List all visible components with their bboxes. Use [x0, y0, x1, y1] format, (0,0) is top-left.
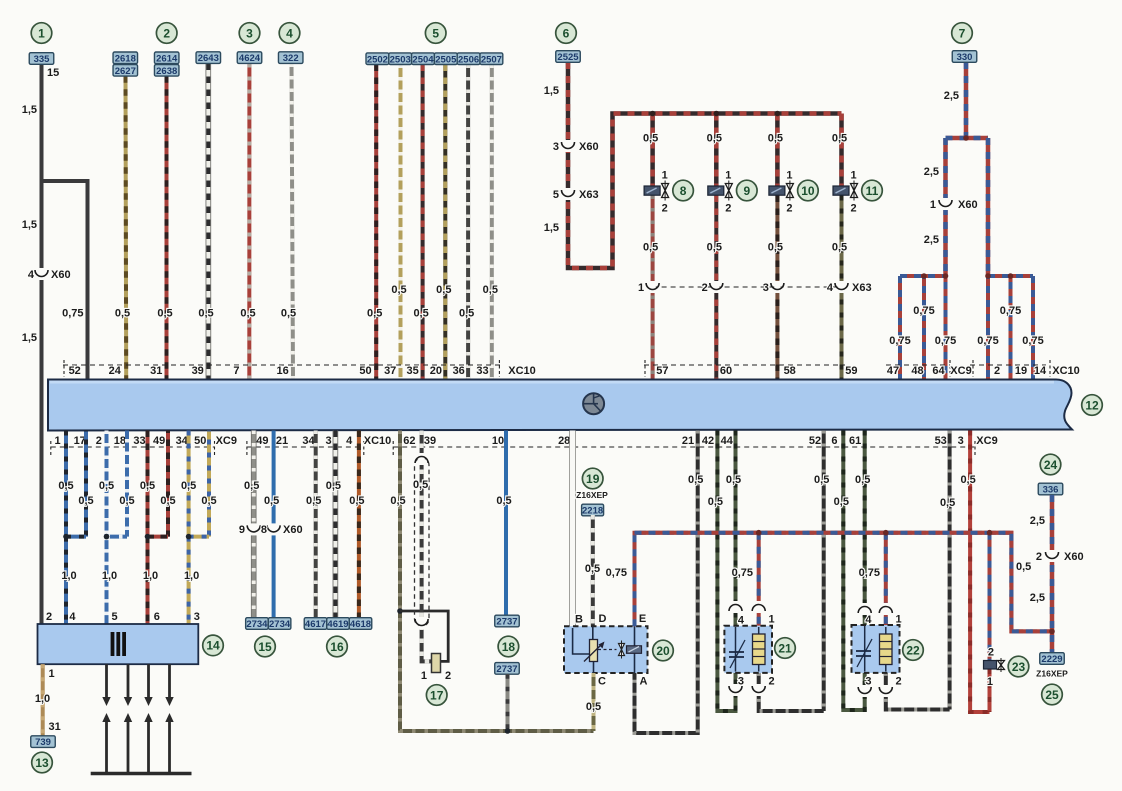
- svg-text:D: D: [599, 613, 607, 625]
- wire 2502: [374, 65, 378, 380]
- svg-text:2618: 2618: [115, 53, 136, 64]
- sensor 22 pin2 to pin 53: [886, 673, 950, 710]
- connector X63 pin 5: [565, 188, 571, 200]
- svg-text:2: 2: [702, 282, 708, 294]
- wire 4624 red-gray: [247, 64, 251, 380]
- svg-text:2734: 2734: [246, 619, 268, 630]
- svg-text:2,5: 2,5: [1030, 592, 1045, 604]
- svg-text:31: 31: [150, 365, 162, 377]
- XC9/XC10 dashed row below ECU: [51, 446, 215, 448]
- spark gap arrows: [105, 664, 108, 699]
- svg-text:0,5: 0,5: [586, 701, 601, 713]
- svg-text:0,5: 0,5: [768, 133, 783, 145]
- component 15 wires: [251, 431, 257, 618]
- svg-text:0,5: 0,5: [367, 308, 382, 320]
- svg-text:35: 35: [406, 365, 418, 377]
- svg-text:1: 1: [638, 282, 644, 294]
- sensor 22 heater symbol: [880, 634, 893, 665]
- svg-text:X60: X60: [579, 141, 599, 153]
- svg-text:15: 15: [47, 67, 59, 79]
- valve 23 lower wire: [988, 669, 992, 712]
- svg-text:X63: X63: [579, 189, 599, 201]
- svg-text:3: 3: [246, 26, 253, 40]
- wires to pins 47 48 64: [898, 276, 902, 380]
- wire label boxes 4617 4619 4618: [304, 618, 327, 630]
- svg-text:2: 2: [46, 611, 52, 623]
- svg-text:1: 1: [421, 670, 427, 682]
- svg-text:1,0: 1,0: [143, 570, 158, 582]
- svg-text:0,5: 0,5: [244, 480, 259, 492]
- svg-text:17: 17: [430, 688, 444, 702]
- injector 11 symbol: [833, 186, 849, 195]
- wire label box 2218: [582, 504, 604, 516]
- junction on injector feed: [714, 111, 720, 117]
- wire 2506: [466, 65, 470, 380]
- svg-text:0,5: 0,5: [940, 497, 955, 509]
- wire label box 2643: [196, 52, 221, 64]
- svg-text:4619: 4619: [327, 619, 348, 630]
- svg-text:2: 2: [988, 647, 994, 659]
- svg-text:0,5: 0,5: [496, 495, 511, 507]
- node 24 callout: [1040, 454, 1061, 475]
- svg-text:0,5: 0,5: [58, 480, 73, 492]
- wire 336 to 2229: [1050, 495, 1055, 653]
- oxygen sensor 22 box: [852, 625, 900, 673]
- node 14 callout: [203, 635, 224, 656]
- coil pair wires group 1: [64, 431, 68, 537]
- wire label box 2229: [1040, 653, 1065, 665]
- K symbol on ECU: [583, 393, 604, 414]
- wire pin 10 blue: [504, 431, 508, 616]
- node 1 callout: [31, 23, 52, 44]
- wire 2503: [399, 65, 403, 380]
- svg-text:2229: 2229: [1041, 654, 1062, 665]
- svg-text:1,0: 1,0: [102, 570, 117, 582]
- svg-text:21: 21: [682, 435, 694, 447]
- svg-text:XC10: XC10: [1052, 365, 1080, 377]
- junction on injector feed: [650, 111, 656, 117]
- svg-text:16: 16: [276, 365, 288, 377]
- svg-text:0,75: 0,75: [913, 305, 934, 317]
- right distribution bar: [988, 274, 1033, 278]
- svg-text:335: 335: [34, 54, 51, 65]
- svg-text:3: 3: [958, 435, 964, 447]
- svg-text:0,5: 0,5: [349, 495, 364, 507]
- svg-text:XC9: XC9: [216, 435, 237, 447]
- svg-text:24: 24: [109, 365, 122, 377]
- wire 335 battery feed: [40, 64, 44, 625]
- wire below 2737: [506, 674, 510, 731]
- spark plug ground bar: [91, 772, 192, 775]
- svg-text:2: 2: [786, 203, 792, 215]
- left distribution bar: [900, 274, 946, 278]
- wire 2643 black-white: [206, 64, 212, 380]
- junction on injector feed: [775, 111, 781, 117]
- IAC valve 20 box: [564, 626, 648, 673]
- svg-text:2638: 2638: [156, 66, 177, 77]
- connector X60 pins 9 and 8: [251, 523, 257, 535]
- svg-text:59: 59: [845, 365, 857, 377]
- svg-text:0,5: 0,5: [157, 308, 172, 320]
- svg-text:0,5: 0,5: [768, 242, 783, 254]
- svg-text:9: 9: [239, 524, 245, 536]
- node 7 callout: [952, 23, 973, 44]
- svg-text:12: 12: [1085, 398, 1099, 412]
- injector 10 symbol: [769, 186, 785, 195]
- svg-text:34: 34: [302, 435, 315, 447]
- wire pin 42 loop to sensor 21 pin 3: [717, 431, 735, 712]
- svg-text:4: 4: [865, 614, 872, 626]
- svg-text:0,5: 0,5: [726, 474, 741, 486]
- svg-text:1: 1: [55, 435, 61, 447]
- junction on wire 62: [397, 608, 403, 614]
- svg-text:17: 17: [74, 435, 86, 447]
- node 25 callout: [1042, 684, 1063, 705]
- svg-text:0,5: 0,5: [99, 480, 114, 492]
- IAC internal valve: [619, 644, 625, 656]
- IAC internal potentiometer: [573, 628, 590, 654]
- svg-text:Z16XEP: Z16XEP: [1036, 669, 1068, 679]
- svg-text:2,5: 2,5: [944, 90, 959, 102]
- svg-text:58: 58: [784, 365, 796, 377]
- svg-text:39: 39: [424, 435, 436, 447]
- sensor 21 pin2 to pin 52: [759, 673, 824, 711]
- sensor 22 connector bumps: [862, 603, 868, 615]
- sensor 21 heater symbol: [753, 634, 766, 665]
- svg-text:52: 52: [69, 365, 81, 377]
- wire label box 2525: [556, 51, 581, 63]
- svg-text:11: 11: [866, 184, 879, 198]
- wire label boxes 2618 2627: [113, 52, 138, 64]
- svg-text:0,5: 0,5: [1016, 561, 1031, 573]
- wire 2525 injector feed: [568, 62, 842, 268]
- svg-text:22: 22: [906, 643, 920, 657]
- svg-text:2503: 2503: [390, 54, 411, 65]
- svg-text:5: 5: [112, 611, 118, 623]
- wire label boxes 2614 2638: [154, 52, 179, 64]
- junction supply rail to valve 23: [987, 530, 993, 536]
- svg-text:2: 2: [851, 203, 857, 215]
- svg-text:2: 2: [725, 203, 731, 215]
- svg-text:0,5: 0,5: [115, 308, 130, 320]
- svg-text:0,5: 0,5: [688, 474, 703, 486]
- svg-text:0,75: 0,75: [935, 335, 956, 347]
- sensor 22 heater internal wire: [885, 627, 887, 672]
- svg-text:20: 20: [430, 365, 442, 377]
- ignition module 14: [38, 624, 199, 664]
- svg-text:64: 64: [932, 365, 945, 377]
- svg-text:0,75: 0,75: [889, 335, 910, 347]
- svg-text:33: 33: [133, 435, 145, 447]
- injector lower wire 11: [840, 196, 844, 380]
- sensor 22 pin1 feed: [884, 533, 888, 625]
- connector X60 pin 2: [1049, 550, 1055, 562]
- svg-text:3: 3: [194, 611, 200, 623]
- svg-text:16: 16: [330, 640, 344, 654]
- wire pin 62 to sensor ground: [400, 431, 594, 732]
- connector X60 pin 3: [565, 140, 571, 152]
- svg-text:21: 21: [276, 435, 288, 447]
- svg-text:3: 3: [738, 676, 744, 688]
- wire pin 6 loop to sensor 22 pin 3: [843, 431, 864, 711]
- svg-text:1: 1: [930, 199, 936, 211]
- svg-text:7: 7: [233, 365, 239, 377]
- svg-text:47: 47: [887, 365, 899, 377]
- svg-text:49: 49: [153, 435, 165, 447]
- svg-text:X63: X63: [852, 282, 872, 294]
- wire label box 322: [278, 52, 303, 64]
- wires to pins 2 19 14: [986, 276, 990, 380]
- svg-text:49: 49: [256, 435, 268, 447]
- svg-text:4624: 4624: [239, 53, 261, 64]
- svg-text:1,0: 1,0: [61, 570, 76, 582]
- svg-text:15: 15: [258, 640, 272, 654]
- sensor 22 element symbol: [864, 626, 866, 672]
- junction with supply rail: [1049, 629, 1055, 635]
- wire 322 gray-white: [292, 64, 294, 380]
- svg-text:10: 10: [801, 184, 815, 198]
- svg-text:0,5: 0,5: [832, 133, 847, 145]
- wire 2507: [490, 65, 494, 380]
- coil pair wires group 2: [105, 431, 109, 537]
- svg-text:0,5: 0,5: [201, 495, 216, 507]
- svg-text:0,5: 0,5: [391, 284, 406, 296]
- node 18 callout: [498, 636, 519, 657]
- svg-text:1,0: 1,0: [35, 693, 50, 705]
- svg-text:1: 1: [896, 614, 902, 626]
- svg-text:13: 13: [35, 756, 49, 770]
- svg-text:2218: 2218: [582, 506, 603, 517]
- node 2 callout: [156, 23, 177, 44]
- svg-text:XC9: XC9: [950, 365, 971, 377]
- component 16 wires: [314, 431, 318, 618]
- svg-text:0,5: 0,5: [643, 242, 658, 254]
- svg-text:2737: 2737: [496, 664, 517, 675]
- wire 2614/2638 red-black: [165, 76, 169, 379]
- injector feed branch 8: [650, 114, 655, 187]
- svg-text:2,5: 2,5: [924, 166, 939, 178]
- svg-text:XC9: XC9: [976, 435, 997, 447]
- wire 330 red-blue main: [964, 62, 969, 138]
- svg-text:2502: 2502: [367, 54, 388, 65]
- svg-text:57: 57: [656, 365, 668, 377]
- svg-text:C: C: [598, 676, 606, 688]
- svg-text:2,5: 2,5: [924, 234, 939, 246]
- svg-text:5: 5: [553, 189, 559, 201]
- svg-text:1,0: 1,0: [184, 570, 199, 582]
- valve 23 upper wire: [988, 533, 992, 661]
- svg-text:4: 4: [346, 435, 353, 447]
- red-blue supply rail overdraw: [635, 533, 1053, 632]
- svg-text:0,5: 0,5: [281, 308, 296, 320]
- svg-text:2627: 2627: [115, 66, 136, 77]
- svg-text:0,5: 0,5: [78, 495, 93, 507]
- svg-text:1,5: 1,5: [22, 104, 37, 116]
- wire label box 739: [31, 736, 56, 748]
- svg-text:60: 60: [720, 365, 732, 377]
- svg-text:23: 23: [1012, 660, 1026, 674]
- svg-text:24: 24: [1044, 458, 1058, 472]
- svg-text:2: 2: [1036, 551, 1042, 563]
- svg-text:53: 53: [935, 435, 947, 447]
- wire label box 330: [952, 51, 977, 63]
- injector 9 symbol: [708, 186, 724, 195]
- svg-text:2506: 2506: [458, 54, 479, 65]
- wire pin 3 XC9 to valve 23: [970, 431, 989, 713]
- XC10 dashed row above ECU: [63, 364, 500, 366]
- wire to node 13 (739): [41, 664, 45, 736]
- svg-text:1: 1: [786, 170, 792, 182]
- svg-text:0,5: 0,5: [413, 308, 428, 320]
- svg-text:20: 20: [656, 644, 670, 658]
- svg-text:2: 2: [445, 670, 451, 682]
- node 13 callout: [32, 752, 53, 773]
- svg-text:336: 336: [1043, 485, 1059, 496]
- X63 dashed row: [653, 286, 842, 288]
- svg-text:0,5: 0,5: [413, 479, 428, 491]
- svg-text:0,5: 0,5: [459, 308, 474, 320]
- wire label box 2737 lower: [495, 663, 520, 675]
- svg-text:0,5: 0,5: [643, 133, 658, 145]
- sensor 21 pin1 feed: [757, 533, 761, 626]
- svg-text:50: 50: [359, 365, 371, 377]
- svg-text:3: 3: [553, 141, 559, 153]
- svg-text:39: 39: [192, 365, 204, 377]
- svg-text:2: 2: [769, 676, 775, 688]
- svg-text:19: 19: [1015, 365, 1027, 377]
- svg-text:4: 4: [738, 615, 745, 627]
- svg-text:2: 2: [896, 676, 902, 688]
- svg-text:1: 1: [725, 170, 731, 182]
- svg-text:0,5: 0,5: [181, 480, 196, 492]
- svg-text:0,5: 0,5: [140, 480, 155, 492]
- svg-text:33: 33: [476, 365, 488, 377]
- svg-text:52: 52: [809, 435, 821, 447]
- wire pin 39 shielded: [422, 431, 432, 662]
- wire label box 335: [29, 53, 54, 65]
- svg-text:4: 4: [827, 282, 834, 294]
- svg-text:0,5: 0,5: [264, 495, 279, 507]
- node 16 callout: [327, 636, 348, 657]
- svg-text:0,5: 0,5: [960, 474, 975, 486]
- wire C to pin 62 run: [592, 673, 596, 731]
- shield dashed outline: [415, 458, 430, 626]
- svg-text:B: B: [575, 614, 583, 626]
- svg-text:1: 1: [851, 170, 857, 182]
- svg-text:6: 6: [154, 611, 160, 623]
- node 20 callout: [653, 640, 674, 661]
- svg-text:0,5: 0,5: [585, 563, 600, 575]
- sensor 21 connector bumps: [732, 601, 738, 613]
- coil pair wires group 4: [187, 431, 191, 537]
- junction of wire 330 T: [963, 135, 969, 141]
- svg-text:2504: 2504: [412, 54, 434, 65]
- svg-text:2: 2: [163, 26, 170, 40]
- svg-text:Z16XEP: Z16XEP: [576, 490, 608, 500]
- svg-text:0,75: 0,75: [606, 567, 627, 579]
- svg-text:25: 25: [1045, 688, 1059, 702]
- svg-text:0,75: 0,75: [977, 335, 998, 347]
- svg-text:0,75: 0,75: [732, 567, 753, 579]
- wire label box 4624: [237, 52, 262, 64]
- svg-text:2,5: 2,5: [1030, 515, 1045, 527]
- svg-text:1: 1: [987, 676, 993, 688]
- svg-text:2: 2: [96, 435, 102, 447]
- injector feed branch 9: [714, 114, 719, 187]
- svg-text:E: E: [639, 613, 646, 625]
- purge valve 23 symbol: [984, 661, 997, 670]
- injector lower wire 8: [651, 196, 655, 380]
- svg-text:0,75: 0,75: [1022, 335, 1043, 347]
- svg-text:3: 3: [865, 676, 871, 688]
- svg-text:9: 9: [743, 184, 750, 198]
- injector feed branch 10: [775, 114, 780, 187]
- sensor 21 heater internal wire: [758, 627, 760, 672]
- svg-text:X60: X60: [958, 199, 978, 211]
- svg-text:5: 5: [432, 26, 439, 40]
- node 12 callout: [1082, 395, 1103, 416]
- svg-text:0,5: 0,5: [483, 284, 498, 296]
- svg-text:0,5: 0,5: [119, 495, 134, 507]
- node 3 callout: [239, 23, 260, 44]
- svg-text:10: 10: [492, 435, 504, 447]
- node 5 callout: [425, 23, 446, 44]
- junction at ground run: [505, 728, 511, 734]
- svg-text:4: 4: [69, 611, 76, 623]
- wire 2618/2627 khaki: [124, 76, 129, 379]
- left branch to X60: [943, 138, 948, 276]
- svg-text:0,5: 0,5: [707, 133, 722, 145]
- svg-text:0,5: 0,5: [834, 496, 849, 508]
- svg-text:8: 8: [680, 184, 687, 198]
- svg-text:37: 37: [384, 365, 396, 377]
- svg-text:42: 42: [702, 435, 714, 447]
- wire 2505: [443, 65, 447, 380]
- svg-text:44: 44: [721, 435, 734, 447]
- svg-text:0,75: 0,75: [1000, 305, 1021, 317]
- svg-text:2: 2: [994, 365, 1000, 377]
- svg-text:1: 1: [49, 668, 55, 680]
- svg-text:3: 3: [763, 282, 769, 294]
- svg-text:0,5: 0,5: [855, 474, 870, 486]
- svg-text:6: 6: [831, 435, 837, 447]
- svg-text:2525: 2525: [557, 52, 579, 63]
- connector X60 pin 1: [942, 198, 948, 210]
- node 6 callout: [556, 23, 577, 44]
- svg-text:50: 50: [194, 435, 206, 447]
- wire label box 2737 upper: [495, 615, 520, 627]
- svg-text:0,5: 0,5: [832, 242, 847, 254]
- knock sensor 17: [432, 654, 441, 673]
- svg-text:2737: 2737: [496, 617, 517, 628]
- svg-text:0,5: 0,5: [436, 284, 451, 296]
- svg-text:18: 18: [502, 640, 516, 654]
- svg-text:0,75: 0,75: [62, 308, 83, 320]
- svg-text:4617: 4617: [305, 619, 326, 630]
- svg-text:1,5: 1,5: [22, 219, 37, 231]
- svg-text:4618: 4618: [350, 619, 371, 630]
- knock sensor bracket wire: [400, 611, 448, 661]
- connector X60 pin 4 on wire 335: [38, 268, 44, 280]
- svg-text:31: 31: [49, 721, 61, 733]
- right branch down: [986, 138, 991, 276]
- svg-text:1,5: 1,5: [544, 222, 559, 234]
- svg-text:322: 322: [283, 53, 299, 64]
- IAC internal motor: [634, 626, 636, 673]
- svg-text:739: 739: [35, 737, 51, 748]
- wire label boxes 2502-2507: [366, 53, 389, 65]
- svg-text:2734: 2734: [269, 619, 291, 630]
